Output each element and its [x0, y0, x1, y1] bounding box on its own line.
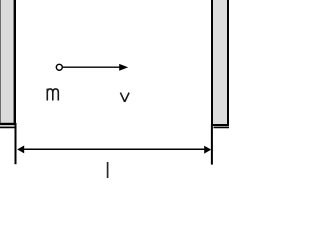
dimension left arrowhead	[17, 146, 24, 154]
left extension line	[15, 123, 17, 164]
label l	[107, 162, 109, 178]
left wall	[0, 0, 15, 124]
label v	[120, 93, 129, 102]
particle m (circle)	[56, 64, 62, 70]
velocity arrow shaft	[63, 66, 121, 68]
label m	[47, 89, 58, 101]
right extension line	[211, 124, 213, 165]
dimension right arrowhead	[204, 146, 211, 154]
right wall	[212, 0, 228, 125]
right floor line	[214, 126, 230, 128]
velocity arrowhead	[119, 64, 128, 71]
dimension line l	[21, 148, 208, 150]
left floor line	[0, 126, 16, 128]
